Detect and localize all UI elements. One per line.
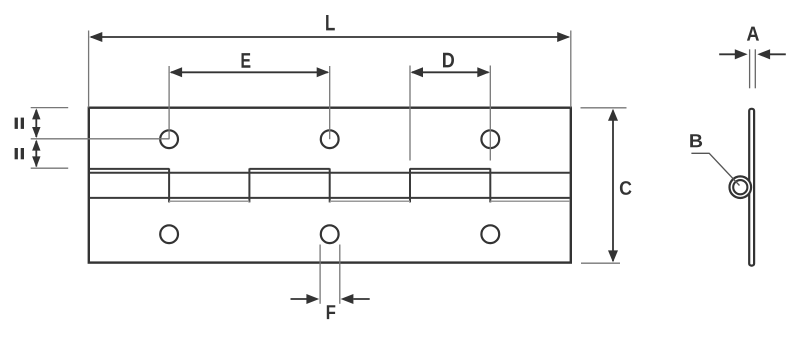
dimension A arrows: [719, 49, 786, 59]
label F: [327, 305, 336, 319]
knuckle joint band: [90, 168, 570, 202]
label L: [326, 15, 335, 30]
dimension C extension lines: [581, 108, 627, 263]
label C: [620, 181, 632, 195]
dimension II upper line with arrows: [32, 108, 40, 138]
dimension D line with arrows: [411, 67, 490, 77]
label A: [747, 27, 759, 41]
screw holes top row: [160, 130, 499, 148]
dimension L extension lines: [89, 31, 571, 108]
label B: [690, 134, 702, 147]
side view knuckle inner circle: [733, 180, 747, 194]
dimension D extension lines: [410, 66, 490, 161]
label E: [242, 53, 251, 68]
dimension L line with arrows: [89, 32, 570, 42]
side view plate: [749, 109, 754, 266]
side view knuckle outer circle: [730, 176, 752, 198]
dimension F arrows: [291, 294, 370, 304]
label II lower: [15, 148, 24, 159]
dimension E line with arrows: [170, 67, 330, 77]
dimension A extension lines: [750, 49, 756, 88]
screw holes bottom row: [160, 225, 499, 243]
label B leader line: [691, 153, 739, 185]
dimension F extension lines: [320, 245, 340, 304]
label D: [443, 53, 454, 68]
dimension E extension lines: [169, 66, 330, 139]
knuckle band lower edge lines: [169, 200, 570, 202]
dimension II lower line with arrows: [32, 140, 40, 168]
dimension C line with arrows: [608, 109, 618, 263]
label II upper: [15, 118, 24, 129]
dimension II extension lines: [31, 108, 169, 169]
hinge leaf outline: [89, 108, 571, 263]
